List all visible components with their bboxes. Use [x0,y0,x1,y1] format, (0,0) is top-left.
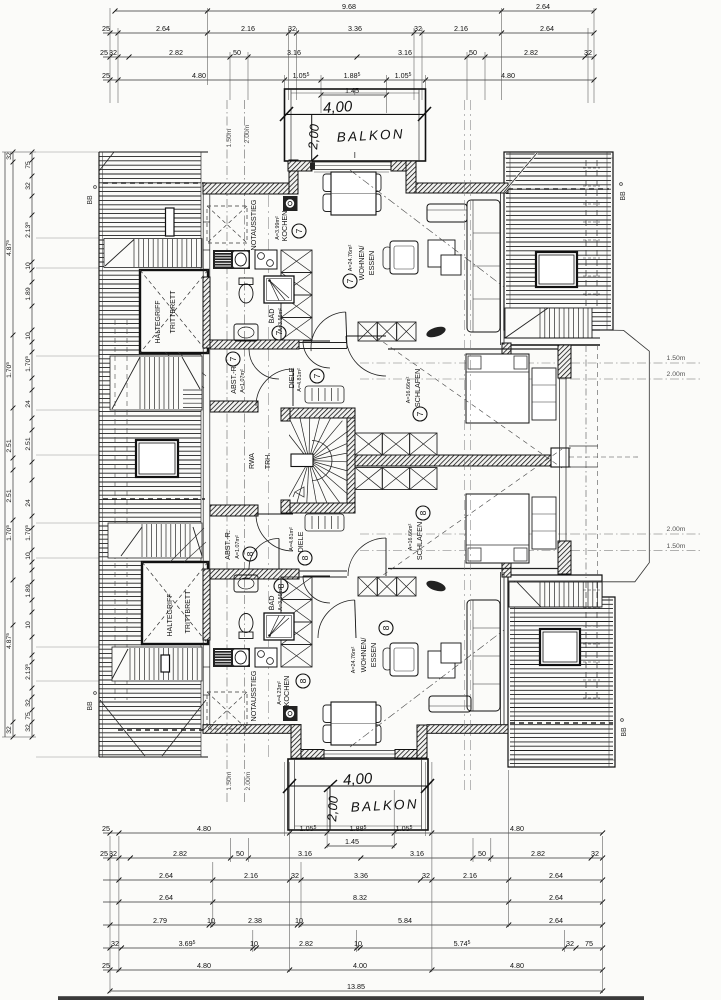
wall balcony left pier [288,161,312,171]
wardrobe right of bed top [532,368,556,420]
wall abst bottom apartment [210,505,258,516]
svg-text:WOHNEN/: WOHNEN/ [359,638,368,673]
party wall between apartments [355,455,551,466]
svg-text:32: 32 [25,182,32,190]
wall bedroom stub top [502,343,511,380]
left chain end bars [2,151,36,153]
wall top-left outer [203,183,290,194]
wall stairwell right [347,418,355,503]
height line 2.00m lower [571,533,700,535]
svg-text:3.16: 3.16 [298,849,312,858]
door bath bottom [303,576,330,603]
wall right outer chunk bottom [558,541,571,574]
svg-text:KOCHEN: KOCHEN [282,676,291,707]
svg-text:32: 32 [291,871,299,880]
svg-text:50: 50 [478,849,486,858]
leader lines top room [165,352,204,388]
door bedroom bottom [348,538,386,576]
svg-text:2.64: 2.64 [540,24,554,33]
svg-text:ABST.-R.: ABST.-R. [223,530,232,560]
svg-text:7: 7 [345,278,355,283]
roof slope dashed diagonal living top [350,170,504,287]
wall right outer chunk top [558,345,571,378]
stair flight stub below [305,514,344,531]
svg-text:2.64: 2.64 [159,893,173,902]
door abst top [249,349,279,379]
svg-text:3.16: 3.16 [287,48,301,57]
divider wall living/bedroom top [299,342,347,344]
wall stairwell bottom [288,503,355,513]
svg-text:75: 75 [25,161,32,169]
height line 2.00m upper [571,378,700,380]
svg-text:2.64: 2.64 [159,871,173,880]
svg-text:32: 32 [25,724,32,732]
extension lines top [109,8,111,103]
dimension chain bottom row 4.80/1.05/1.88/1.05/4.80 [103,832,603,834]
shower bottom [264,613,294,640]
svg-text:BAD: BAD [267,596,276,611]
ridge dashed lines right [585,345,587,578]
svg-text:2.00m: 2.00m [667,371,686,378]
svg-text:1.45: 1.45 [345,86,359,95]
svg-text:2.82: 2.82 [524,48,538,57]
left roof tread band A [110,356,202,410]
divider wall living/bedroom bottom [299,570,347,572]
svg-text:KOCHEN: KOCHEN [280,211,289,242]
svg-text:32: 32 [591,849,599,858]
dimension chain bottom row 2.82/50/3.16 [103,857,603,859]
svg-text:1.50m: 1.50m [667,355,686,362]
svg-text:50: 50 [233,48,241,57]
left roof tread band C [112,647,202,681]
svg-text:24: 24 [25,499,32,507]
skylight window top-right roof [536,252,577,287]
svg-text:4.80: 4.80 [197,961,211,970]
party wall end box at window [551,448,569,467]
svg-text:10: 10 [250,939,258,948]
door bedroom top [346,336,386,376]
svg-text:32: 32 [25,699,32,707]
svg-text:10: 10 [354,939,362,948]
svg-text:TRITTBRETT: TRITTBRETT [185,590,192,633]
wall balcony step left [289,160,298,194]
notausstieg dashed box bottom [207,692,247,729]
roof block top-right hatching [504,152,613,330]
svg-text:13.85: 13.85 [347,982,365,991]
svg-text:WOHNEN/: WOHNEN/ [357,246,366,281]
svg-text:2.82: 2.82 [173,849,187,858]
svg-text:25: 25 [100,48,108,57]
svg-text:7: 7 [415,411,425,416]
door abst bottom [249,539,279,569]
svg-text:2.00m: 2.00m [245,771,252,790]
wall abst top apartment [210,401,258,412]
svg-text:2.82: 2.82 [169,48,183,57]
bench bottom apartment [425,579,447,594]
svg-text:1.50m: 1.50m [226,128,233,147]
bed bottom apartment [466,494,529,563]
wall bedroom stub bottom [502,538,511,577]
svg-text:BB: BB [621,727,628,737]
flue dashed lines top-right roof [585,160,587,308]
roof eave dash row left bottom [118,729,205,731]
wall stairwell stubs west [281,408,290,421]
wall balcony left pier bottom [301,750,324,759]
svg-text:2.64: 2.64 [156,24,170,33]
svg-text:10: 10 [295,916,303,925]
roof block bottom-right eave dash row [510,722,613,724]
bed top apartment [466,354,529,423]
coffee table top [428,240,455,267]
flue dashed lines bottom-right roof [585,582,587,700]
leader lines bottom room [170,528,204,562]
svg-text:50: 50 [469,48,477,57]
svg-text:8: 8 [381,625,391,630]
svg-text:8: 8 [298,678,308,683]
closet row bedroom top [358,322,377,341]
emergency window sill marks bottom [203,694,210,696]
svg-text:32: 32 [288,24,296,33]
svg-text:8: 8 [245,551,255,556]
door living top [311,312,346,351]
height line 2.00m vertical top [244,100,246,805]
dimension chain top sub row 1.45 [321,94,387,96]
dining table top [323,174,341,192]
kitchen hob top [255,250,277,269]
svg-text:3.36: 3.36 [354,871,368,880]
svg-text:ABST.-R.: ABST.-R. [229,364,238,394]
svg-text:TRH.: TRH. [265,453,272,469]
stair arrow [295,487,304,497]
wardrobe right of bed bottom [532,497,556,549]
door entry top apartment [256,369,293,406]
toilet top [239,278,253,285]
svg-text:75: 75 [585,939,593,948]
wall step right of balcony bottom [417,725,427,758]
skylight window bottom-right roof [540,629,580,665]
wall bath top apartment south [210,340,299,349]
dimension chain left outer 4.87 [4,152,6,737]
window balcony door top [312,161,391,163]
dimension chain bottom row 25/4.80/4.00/4.80 [103,969,603,971]
dimension chain top row 2.64/2.16/32/3.36/32/2.16/2.64 [103,32,594,34]
dimension chain bottom row 2.64/8.32/2.64 [103,901,603,903]
bench top apartment [425,325,447,340]
wall balcony right pier [391,161,416,171]
chimney slot bottom-left [161,655,170,672]
svg-text:A=3.56m²: A=3.56m² [278,308,284,332]
roof block top-right eave dash row [508,188,609,190]
svg-text:NOTAUSSTIEG: NOTAUSSTIEG [249,670,258,721]
svg-text:4.80: 4.80 [192,71,206,80]
handwritten dimension 4,00 bottom [288,785,428,787]
handwritten dimension 2,00 top [311,114,313,161]
svg-text:A=4.81m²: A=4.81m² [289,527,295,551]
svg-text:2.51: 2.51 [6,439,13,452]
svg-text:4.80: 4.80 [197,824,211,833]
left roof room TRITTBRETT bottom (dashed X) [142,562,208,644]
construction axis vertical right pair [464,100,466,790]
svg-text:4.80: 4.80 [501,71,515,80]
svg-text:2.64: 2.64 [549,871,563,880]
handwritten dimension 4,00 top [285,113,426,115]
party wall extension lines right [569,445,598,447]
roof eave dash row left top [103,182,205,184]
window right wall lines [559,378,561,541]
wall bath bottom apartment north [210,569,299,579]
eave outline right wing [600,330,649,582]
emergency window sill marks top [203,249,210,251]
height line 1.50m vertical top [226,100,228,805]
svg-text:2,00: 2,00 [305,123,322,151]
wall bottom-left outer [203,725,301,734]
dining table bottom [323,705,341,723]
stair center landing [291,454,313,467]
height lines crossing bedrooms [360,362,571,364]
balcony top outline [285,89,426,161]
coffee table bottom [428,651,455,678]
svg-text:NOTAUSSTIEG: NOTAUSSTIEG [249,199,258,250]
sofa bottom apartment [467,600,500,711]
wall balcony right pier bottom [395,750,424,759]
svg-text:2.00m: 2.00m [667,526,686,533]
svg-text:ESSEN: ESSEN [369,643,378,667]
scanner edge bar bottom [58,996,644,1000]
svg-text:25: 25 [102,824,110,833]
wall balcony step left bottom [291,725,301,759]
svg-text:10: 10 [25,332,32,340]
svg-text:A=3.56m²: A=3.56m² [278,587,284,611]
roof slope dashed diagonal living bottom [350,630,504,747]
dimension chain bottom row 32/3.69/10/2.82/10/5.74/32/75 [103,947,603,949]
svg-text:A=4.81m²: A=4.81m² [297,368,303,392]
shower top [264,276,294,303]
svg-text:2.16: 2.16 [454,24,468,33]
svg-text:32: 32 [414,24,422,33]
window balcony door bottom [324,750,395,752]
svg-text:3.16: 3.16 [410,849,424,858]
svg-text:2,00: 2,00 [324,795,341,823]
stair treads top-right roof [505,308,592,338]
closet row party wall north [355,433,382,455]
svg-text:4.80: 4.80 [510,961,524,970]
wall bottom right to roof block [427,725,508,734]
stair flight stub above [305,386,344,403]
dimension chain bottom row 2.79/10/2.38/10/5.84/2.64 [103,924,603,926]
svg-text:A=3.99m²: A=3.99m² [275,216,281,240]
svg-text:A=4.23m²: A=4.23m² [277,681,283,705]
armchair top [390,241,418,274]
svg-text:8.32: 8.32 [353,893,367,902]
height line 1.50m lower [571,550,700,552]
svg-text:8: 8 [276,583,286,588]
dimension chain top row 2.82/50/3.16 [103,56,594,58]
svg-text:SCHLAFEN: SCHLAFEN [413,369,422,407]
section line vertical center [268,195,270,760]
svg-text:4,00: 4,00 [343,770,374,789]
svg-text:1.89: 1.89 [25,584,32,597]
closet column bath top [281,250,312,340]
svg-text:A=1.07m²: A=1.07m² [240,369,246,393]
svg-text:2.64: 2.64 [549,916,563,925]
closet row bedroom bottom [358,577,377,596]
toilet bottom [239,632,253,639]
svg-text:2.00m: 2.00m [244,124,251,143]
armchair bottom [390,643,418,676]
dimension chain left inner detail [31,152,33,737]
roof eave dash row left middle [103,498,205,500]
roof block bottom-right hatching [508,575,615,767]
svg-text:25: 25 [102,961,110,970]
wall step right of balcony [406,161,416,193]
svg-text:32: 32 [111,939,119,948]
svg-text:ESSEN: ESSEN [367,251,376,275]
svg-text:32: 32 [566,939,574,948]
armchair side table bottom [383,648,392,670]
svg-text:10: 10 [207,916,215,925]
roof slope dashed diagonal bedroom top [376,337,562,468]
left roof tread band D [104,239,202,268]
roof block top-right bottom edge [504,337,600,339]
closet row party wall south [355,468,382,490]
svg-text:2.82: 2.82 [531,849,545,858]
svg-text:1.89: 1.89 [25,287,32,300]
left outer wall lines [202,194,204,725]
svg-text:25: 25 [102,71,110,80]
sofa top apartment [467,200,500,332]
svg-text:2.64: 2.64 [549,893,563,902]
wall left chunk bath top apartment [203,277,210,348]
svg-text:32: 32 [422,871,430,880]
stair treads bottom-right roof [509,582,602,607]
svg-text:HALTEGRIFF: HALTEGRIFF [155,300,162,343]
dashed verticals left roof [114,320,116,700]
svg-text:8: 8 [300,555,310,560]
svg-text:2.16: 2.16 [241,24,255,33]
notausstieg dashed box top [207,206,247,243]
dimension chain bottom row 13.85 [110,990,603,992]
kitchen corner vent bottom [283,706,298,721]
svg-text:BB: BB [87,701,94,711]
left roof tread band B [108,523,202,558]
svg-text:A=1.07m²: A=1.07m² [235,535,241,559]
svg-text:7: 7 [312,373,322,378]
svg-text:4,00: 4,00 [323,98,354,117]
svg-text:1.45: 1.45 [345,837,359,846]
washbasin top [234,324,258,341]
svg-text:A=24.76m²: A=24.76m² [348,245,354,272]
dimension chain top row 4.80/1.05/1.88/1.05/4.80 [103,79,594,81]
svg-text:50: 50 [236,849,244,858]
svg-text:BAD: BAD [267,309,276,324]
kitchen corner vent top [283,196,298,211]
glass partition living/roof block top [500,192,502,345]
svg-text:DIELE: DIELE [296,531,305,552]
svg-text:9.68: 9.68 [342,2,356,11]
skylight window left roof [136,440,178,477]
svg-text:SCHLAFEN: SCHLAFEN [415,522,424,560]
svg-text:5.84: 5.84 [398,916,412,925]
door living bottom [318,600,355,638]
hip line top-right block corner [504,153,537,192]
svg-text:TRITTBRETT: TRITTBRETT [170,290,177,333]
svg-text:A=16.66m²: A=16.66m² [406,377,412,404]
svg-text:1.50m: 1.50m [667,543,686,550]
wall stairwell top [288,408,355,418]
svg-text:BB: BB [620,191,627,201]
svg-text:A=16.66m²: A=16.66m² [408,524,414,551]
svg-text:3.16: 3.16 [398,48,412,57]
svg-text:10: 10 [25,621,32,629]
svg-text:4.80: 4.80 [510,824,524,833]
dimension chain bottom row 2.64/2.16/32/3.36/32/2.16/2.64 [103,879,603,881]
sofa arm top [427,204,467,222]
svg-text:8: 8 [418,510,428,515]
roof area left strip hatching [99,152,208,757]
svg-text:2.51: 2.51 [6,489,13,502]
svg-text:2.38: 2.38 [248,916,262,925]
svg-text:75: 75 [25,712,32,720]
dimension chain top row 9.68 [115,10,594,12]
chimney slot top-left [166,208,175,236]
svg-text:2.16: 2.16 [463,871,477,880]
svg-text:HALTEGRIFF: HALTEGRIFF [167,593,174,636]
kitchen sink unit bottom [213,648,250,667]
svg-text:7: 7 [228,356,238,361]
svg-text:25: 25 [100,849,108,858]
left roof room TRITTBRETT top (dashed X) [140,270,208,353]
svg-text:1.50m: 1.50m [226,771,233,790]
hip line top-left roof strip corner [99,152,114,171]
svg-text:2.51: 2.51 [25,437,32,450]
svg-text:25: 25 [102,24,110,33]
svg-text:2.79: 2.79 [153,916,167,925]
glass partition living/roof block bottom [500,572,502,725]
door entry bottom apartment [256,514,293,551]
sofa arm bottom [429,696,471,712]
kitchen hob bottom [255,648,277,667]
left extension stubs [36,151,99,153]
armchair side table top [383,247,392,269]
svg-text:A=24.76m²: A=24.76m² [351,647,357,674]
svg-text:7: 7 [274,330,284,335]
svg-text:2.64: 2.64 [536,2,550,11]
extension lines bottom [109,836,111,993]
svg-text:2.16: 2.16 [244,871,258,880]
wall left chunk bath bottom apartment [203,569,210,640]
balcony bottom outline [288,759,428,830]
roof slope dashed diagonal bedroom bottom [376,449,562,580]
door bath top [303,341,330,368]
handwritten dimension 2,00 bottom [329,786,331,830]
svg-text:2.82: 2.82 [299,939,313,948]
svg-text:32: 32 [6,726,13,734]
svg-text:7: 7 [294,228,304,233]
svg-text:RWA: RWA [249,453,256,469]
left roof bottom hip diagonals [100,700,145,756]
washbasin bottom [234,575,258,592]
svg-text:24: 24 [25,400,32,408]
closet column bath bottom [281,577,312,667]
svg-text:10: 10 [25,552,32,560]
wall top right to roof block [416,183,508,193]
svg-text:4.00: 4.00 [353,961,367,970]
height line 1.50m upper [571,362,700,364]
dimension chain bottom sub row 1.45 [327,845,394,847]
kitchen sink unit top [213,250,250,269]
svg-text:BB: BB [87,195,94,205]
svg-text:DIELE: DIELE [287,367,296,388]
